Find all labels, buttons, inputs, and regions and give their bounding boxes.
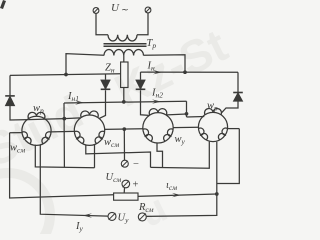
wire chain to core4 bottom-left: [151, 142, 210, 169]
wire V2 In2 tap: [186, 101, 188, 117]
wire Zn bottom to bus In1-In2: [123, 88, 125, 103]
diode VD2: [101, 80, 111, 89]
wire core2 bottom-left to chain: [86, 145, 151, 167]
terminal U~ right: [145, 7, 151, 13]
terminal control return: [138, 213, 146, 221]
node ism junction: [215, 192, 219, 196]
wire D3 to core3 top-left: [141, 90, 149, 115]
wire D4 to core4 top-right: [222, 101, 238, 112]
core 2 ring: [74, 115, 104, 145]
transformer Tp core: [104, 43, 147, 45]
core 2 winding lower-left: [74, 131, 84, 143]
core 3 ring: [143, 113, 173, 143]
wire Usm plus to Rsm: [123, 188, 125, 193]
wire core3 top-right to tap: [167, 113, 187, 116]
wire secondary left end to node A: [66, 54, 104, 75]
diode VD3: [136, 80, 146, 89]
watermark ghost text: [0, 19, 235, 240]
svg-text:+: +: [133, 180, 139, 191]
wire rail x216 core4 bottom-right: [147, 142, 217, 217]
wire terminal-right to primary: [137, 13, 148, 35]
arrow In2: [152, 99, 161, 103]
svg-text:−: −: [133, 159, 139, 170]
terminal U~ left: [93, 8, 99, 14]
diode VD4: [233, 93, 243, 102]
terminal Usm plus: [122, 180, 130, 188]
wire core1-core2 top chain: [29, 118, 81, 120]
wire core3-core4 wsm chain: [173, 126, 198, 128]
core 1 ring: [22, 116, 51, 145]
wire terminal-left to primary: [96, 13, 108, 34]
resistor Rsm: [114, 193, 138, 200]
wire bus3 In1-In2: [64, 101, 187, 103]
wire D4 riser: [237, 72, 239, 92]
wire bus1 left AC: [10, 74, 121, 76]
core 4 winding lower-right: [218, 128, 227, 140]
core 4 winding lower-left: [198, 128, 207, 140]
wire left rail wsm: [10, 133, 114, 198]
wire core1 bottom-right descender: [40, 145, 108, 216]
wire D2 riser: [105, 74, 107, 80]
wire D1 to core1 top-left: [10, 106, 29, 120]
diode VD1: [5, 96, 15, 106]
core 1 winding top: [28, 112, 45, 118]
node B junction: [183, 70, 187, 74]
core 1 winding lower-right: [42, 132, 51, 144]
terminal Uy: [108, 212, 116, 220]
terminal Usm minus: [121, 160, 128, 167]
wire secondary center tap to Zn: [123, 56, 125, 63]
wire core1-core2 mid chain: [51, 130, 74, 133]
wire D3 riser: [140, 72, 142, 80]
svg-text:∼: ∼: [121, 5, 129, 15]
wire tap to core4 top-left: [187, 116, 205, 119]
node A junction: [64, 73, 68, 77]
node In1 tap junction: [62, 117, 66, 121]
core 3 winding lower-right: [164, 129, 174, 141]
arrow In: [153, 70, 162, 74]
core 2 winding top: [81, 111, 99, 117]
resistor Zn: [121, 62, 128, 88]
core 2 winding lower-right: [95, 131, 105, 143]
wire Rsm to right rail: [138, 194, 217, 196]
wire tap to Usm minus: [123, 129, 125, 160]
node Usm tap junction: [122, 127, 126, 131]
transformer Tp secondary winding: [104, 49, 143, 55]
wire core2-core3 wsm chain: [105, 128, 143, 131]
wire core4 right lead to rail: [228, 128, 240, 130]
wire D1 riser: [9, 75, 11, 95]
node Zn-bus junction: [122, 100, 126, 104]
wire core2 bottom-right descender: [94, 145, 96, 168]
corner page mark: [0, 0, 6, 9]
wire D2 to core2 top-right: [100, 90, 106, 118]
core 4 winding top: [205, 109, 222, 115]
core 3 winding top: [149, 109, 167, 115]
wire core1 bottom-left descender: [35, 145, 94, 168]
transformer Tp primary winding: [108, 35, 137, 41]
wire core3 bottom descender: [157, 143, 163, 168]
wire rail x239: [217, 129, 240, 184]
arrow ism: [172, 193, 181, 197]
wire V1 In1 tap: [63, 103, 65, 167]
arrow Iy: [83, 213, 92, 217]
wire secondary right end to node B: [144, 55, 186, 72]
svg-text:U: U: [111, 2, 120, 14]
wire core1 wsm left lead: [10, 132, 23, 134]
arrow In1: [75, 100, 84, 104]
wire bus2 right AC: [141, 71, 239, 73]
node In2 tap junction: [185, 112, 189, 116]
core 4 ring: [198, 112, 227, 141]
core 3 winding lower-left: [143, 129, 153, 141]
core 1 winding lower-left: [22, 132, 31, 144]
